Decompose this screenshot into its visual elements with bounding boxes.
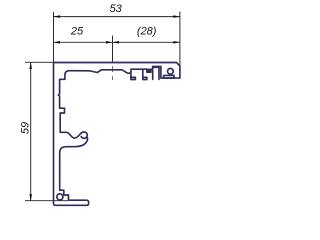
svg-text:(28): (28) — [137, 25, 157, 37]
svg-text:59: 59 — [19, 122, 31, 134]
svg-text:53: 53 — [110, 3, 123, 15]
svg-text:25: 25 — [70, 25, 84, 37]
